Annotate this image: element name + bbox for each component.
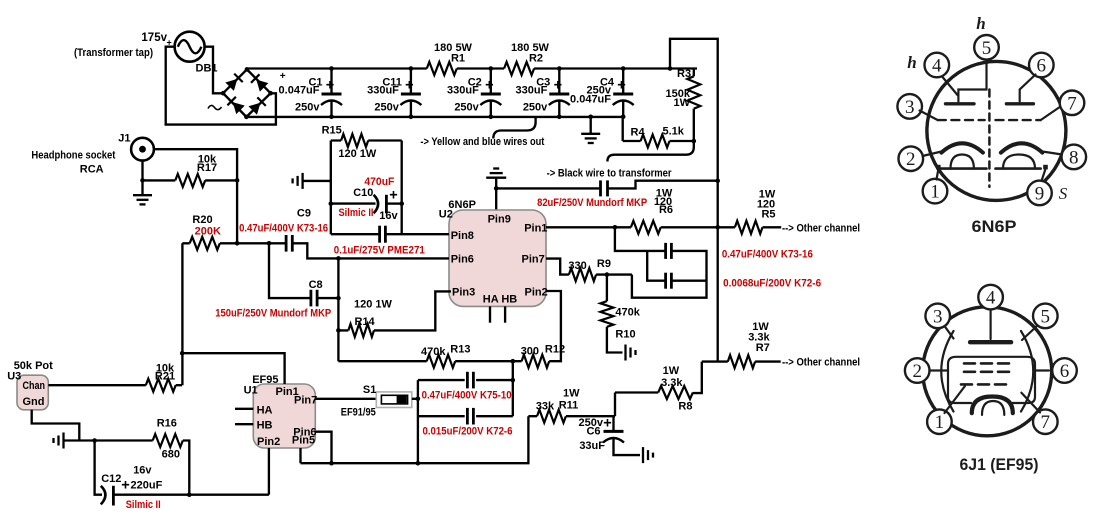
svg-text:330uF: 330uF — [516, 85, 548, 97]
node Pin6 bottom — [329, 461, 334, 466]
svg-text:RCA: RCA — [80, 164, 104, 176]
resistor R10 — [606, 275, 608, 302]
svg-text:J1: J1 — [118, 133, 130, 145]
wire S1 to caps node — [412, 398, 418, 400]
svg-text:Pin6: Pin6 — [451, 254, 474, 266]
svg-text:120 1W: 120 1W — [354, 299, 393, 311]
svg-text:16v: 16v — [133, 465, 152, 477]
node caps-bottom wire — [416, 461, 421, 466]
svg-text:U3: U3 — [7, 371, 21, 383]
tube socket diagram 6N6P — [897, 14, 1086, 205]
capacitor C1 — [279, 66, 342, 119]
svg-text:470uF: 470uF — [364, 176, 394, 188]
node bridge vertex — [245, 67, 250, 72]
wire ground to R16 — [64, 439, 153, 441]
node S1 connection — [416, 397, 421, 402]
wire top S1 cap — [418, 379, 513, 381]
wire R8 riser — [693, 362, 702, 394]
svg-text:+: + — [617, 78, 625, 94]
svg-text:220uF: 220uF — [131, 480, 163, 492]
node R9 junction — [605, 272, 610, 277]
capacitor C9 — [285, 235, 288, 252]
node bridge vertex — [221, 91, 226, 96]
svg-text:3: 3 — [933, 306, 943, 327]
resistor R8 — [658, 386, 693, 399]
wire C6 riser to R8 — [614, 393, 616, 417]
wire R15 box left rail — [330, 141, 332, 235]
svg-text:R9: R9 — [597, 258, 611, 270]
svg-text:4: 4 — [986, 288, 996, 309]
wire top-right loop to right trunk — [670, 39, 718, 362]
svg-text:U2: U2 — [439, 209, 453, 221]
svg-text:33uF: 33uF — [579, 440, 605, 452]
svg-text:Headphone socket: Headphone socket — [31, 150, 115, 162]
svg-text:6: 6 — [1037, 56, 1047, 77]
wire cap2 branch — [647, 251, 665, 281]
wire transformer right to bridge left — [205, 47, 224, 94]
svg-text:82uF/250V Mundorf MKP: 82uF/250V Mundorf MKP — [537, 197, 647, 209]
wire Pin7 U1 to S1 — [315, 398, 376, 400]
capacitor 0.015uF/200V K72-6 — [466, 408, 469, 425]
wire Pin1 to junction — [546, 226, 631, 228]
svg-text:250v: 250v — [523, 102, 548, 114]
wire R20-left long vertical — [181, 243, 183, 385]
svg-text:R13: R13 — [450, 344, 470, 356]
svg-text:U1: U1 — [244, 385, 258, 397]
svg-text:330: 330 — [568, 260, 586, 272]
svg-text:470k: 470k — [615, 307, 640, 319]
resistor R12 — [522, 355, 550, 368]
svg-text:680: 680 — [162, 449, 180, 461]
wire yellow-blue takeoff curl — [493, 117, 535, 139]
heater stub HA U1 — [235, 408, 253, 410]
node C9 wire branch to C8 — [267, 241, 272, 246]
node R21 to Pin1 branch — [180, 351, 185, 356]
wire top cap right — [632, 251, 707, 298]
svg-text:HB: HB — [257, 420, 273, 432]
wire B+ top rail — [247, 67, 697, 70]
svg-text:8: 8 — [1069, 147, 1079, 168]
svg-text:+: + — [603, 416, 611, 432]
svg-text:7: 7 — [1067, 93, 1077, 114]
svg-text:250v: 250v — [374, 102, 399, 114]
svg-text:R16: R16 — [157, 418, 177, 430]
resistor R11 — [537, 410, 566, 423]
resistor R6 — [631, 221, 661, 234]
svg-text:R10: R10 — [615, 329, 635, 341]
node C8-riser — [336, 296, 341, 301]
svg-text:(Transformer tap): (Transformer tap) — [74, 47, 153, 59]
svg-text:3.3k: 3.3k — [661, 377, 683, 389]
svg-text:Chan: Chan — [23, 380, 46, 392]
wire input node to C9 — [237, 242, 286, 244]
capacitor 82uF/250V Mundorf MKP — [599, 180, 602, 196]
wire Gnd route from U3 — [32, 410, 80, 441]
wire branch down to C8 — [269, 243, 311, 298]
wire C8 right to riser — [317, 297, 338, 299]
ground above Pin9 (inverted) — [495, 178, 497, 188]
svg-text:+: + — [121, 478, 129, 494]
svg-text:EF91/95: EF91/95 — [341, 406, 376, 418]
svg-text:2: 2 — [906, 149, 916, 170]
svg-text:+: + — [554, 78, 562, 94]
svg-text:175v: 175v — [141, 32, 167, 44]
resistor R13 — [427, 355, 456, 368]
svg-text:HA HB: HA HB — [483, 294, 517, 306]
wire Chan to R21 — [48, 384, 146, 386]
svg-text:1W: 1W — [674, 97, 691, 109]
svg-text:R15: R15 — [322, 125, 342, 137]
heater stub HA U2 — [489, 306, 491, 322]
switch S1 — [376, 392, 412, 408]
svg-text:S1: S1 — [363, 384, 376, 396]
svg-text:S: S — [1059, 184, 1068, 203]
svg-text:0.47uF/400V K75-10: 0.47uF/400V K75-10 — [422, 389, 512, 401]
connector J1 RCA — [131, 138, 154, 161]
svg-text:Silmic II: Silmic II — [126, 499, 161, 511]
svg-text:5: 5 — [1041, 306, 1051, 327]
svg-text:R2: R2 — [529, 53, 543, 65]
wire U1 Pin6 jog — [315, 432, 331, 464]
svg-text:4: 4 — [932, 56, 942, 77]
svg-text:C8: C8 — [309, 279, 323, 291]
resistor R1 — [427, 62, 457, 75]
resistor R2 — [504, 62, 534, 75]
svg-text:R7: R7 — [756, 342, 770, 354]
resistor R3 — [693, 69, 695, 77]
bridge rectifier DB1 — [223, 69, 271, 117]
svg-text:C10: C10 — [353, 187, 373, 199]
svg-text:250v: 250v — [295, 102, 320, 114]
svg-text:6N6P: 6N6P — [972, 217, 1017, 236]
resistor R17 — [175, 174, 205, 187]
ground at U3 (left-pointing) — [62, 433, 64, 449]
node R16-C12 — [187, 492, 192, 497]
svg-text:150uF/250V Mundorf MKP: 150uF/250V Mundorf MKP — [215, 308, 331, 320]
svg-text:C6: C6 — [586, 426, 600, 438]
svg-text:Pin2: Pin2 — [525, 287, 548, 299]
capacitor C11 — [367, 66, 421, 119]
svg-text:+: + — [280, 71, 286, 82]
wire bottom S1 cap — [418, 415, 513, 417]
svg-text:R5: R5 — [761, 209, 775, 221]
pot U3 body — [17, 375, 48, 410]
node rail corner — [668, 66, 673, 71]
resistor R20 — [190, 237, 220, 250]
resistor R7 — [728, 355, 755, 368]
wire R6-left down to caps — [615, 227, 666, 251]
svg-text:120 1W: 120 1W — [338, 148, 377, 160]
svg-text:1: 1 — [930, 182, 940, 203]
svg-text:+: + — [405, 78, 413, 94]
capacitor C6 33uF — [612, 416, 614, 430]
svg-text:0.47uF/400V K73-16: 0.47uF/400V K73-16 — [722, 249, 813, 261]
svg-text:+: + — [485, 78, 493, 94]
svg-text:Pin2: Pin2 — [257, 436, 280, 448]
heater stub HB U1 — [235, 423, 253, 425]
wire transformer left to bridge bottom return — [166, 47, 276, 125]
wire J1 to right vertical — [154, 149, 237, 243]
svg-text:6J1 (EF95): 6J1 (EF95) — [960, 455, 1039, 474]
svg-text:16v: 16v — [379, 210, 398, 222]
ground PSU — [590, 117, 592, 133]
svg-text:R3: R3 — [677, 68, 691, 80]
node right rail top cap — [511, 378, 516, 383]
svg-text:5.1k: 5.1k — [663, 126, 685, 138]
svg-text:Gnd: Gnd — [23, 396, 45, 408]
tube U2 6N6P body — [449, 210, 546, 306]
wire riser x=338.4 — [337, 258, 339, 361]
node bridge vertex — [268, 91, 273, 96]
svg-text:h: h — [907, 53, 916, 72]
svg-text:h: h — [976, 14, 985, 33]
svg-text:C9: C9 — [297, 208, 311, 220]
svg-text:Pin3: Pin3 — [452, 287, 475, 299]
svg-text:300: 300 — [521, 346, 539, 358]
node bridge vertex — [244, 115, 249, 120]
svg-text:200K: 200K — [195, 226, 221, 238]
svg-text:Pin9: Pin9 — [488, 214, 511, 226]
svg-text:Pin7: Pin7 — [294, 395, 317, 407]
wire bottom cap right — [671, 280, 706, 282]
ground at C6 (right-pointing) — [642, 447, 644, 463]
resistor R15 box — [331, 139, 402, 141]
heater stub HB U2 — [504, 306, 506, 322]
resistor R14 — [348, 324, 374, 337]
resistor R9 — [569, 268, 596, 281]
svg-text:R14: R14 — [355, 316, 376, 328]
svg-text:1W: 1W — [563, 388, 580, 400]
svg-text:HA: HA — [257, 404, 273, 416]
capacitor C8 — [309, 290, 312, 307]
svg-text:6: 6 — [1060, 361, 1070, 382]
svg-text:R6: R6 — [659, 204, 673, 216]
svg-text:0.47uF/400V K73-16: 0.47uF/400V K73-16 — [239, 223, 328, 235]
svg-text:Silmic II: Silmic II — [339, 207, 374, 219]
svg-text:R4: R4 — [631, 127, 646, 139]
capacitor C3 — [516, 66, 570, 119]
svg-text:C12: C12 — [101, 473, 121, 485]
capacitor 0.47uF/400V K75-10 — [466, 372, 469, 389]
resistor R16 — [153, 434, 183, 447]
svg-text:0.015uF/200V K72-6: 0.015uF/200V K72-6 — [423, 425, 513, 437]
wire DC- bottom rail — [246, 117, 622, 141]
wire caps left rail — [417, 380, 419, 463]
svg-text:1: 1 — [935, 412, 945, 433]
wire J1 bottom stub — [141, 161, 143, 181]
wire ground to left rail — [303, 180, 331, 182]
svg-text:R8: R8 — [678, 401, 692, 413]
capacitor 0.0068uF/200V K72-6 (parallel pair bottom) — [664, 273, 667, 289]
node trunk-82uF — [715, 178, 720, 183]
svg-text:0.047uF: 0.047uF — [279, 85, 320, 97]
resistor R4 — [641, 135, 670, 148]
svg-text:-> Yellow and blue wires out: -> Yellow and blue wires out — [420, 136, 544, 148]
wire Pin7 to R9 — [546, 259, 569, 275]
svg-text:0.047uF: 0.047uF — [570, 94, 611, 106]
wire trunk to 82uF cap — [608, 181, 718, 189]
wire bottom long wire to R11 — [301, 416, 529, 463]
svg-text:250v: 250v — [454, 102, 479, 114]
AC source (transformer tap) T1 — [175, 32, 205, 62]
AC squiggle near bridge — [208, 105, 222, 109]
resistor R21 — [146, 379, 176, 392]
wire R12 to Pin2 riser — [546, 291, 561, 361]
svg-text:1W: 1W — [663, 365, 680, 377]
svg-text:-> Black wire to transformer: -> Black wire to transformer — [547, 168, 673, 180]
svg-text:Pin1: Pin1 — [524, 223, 547, 235]
svg-text:Pin7: Pin7 — [522, 254, 545, 266]
wire to U1 Pin1 — [182, 353, 284, 384]
svg-text:470k: 470k — [421, 346, 446, 358]
wire R13 to R12 — [455, 360, 521, 362]
svg-text:3: 3 — [905, 97, 915, 118]
node R17 right — [235, 178, 240, 183]
node Pin9 junction — [494, 186, 499, 191]
svg-text:33k: 33k — [536, 401, 555, 413]
wire black wire takeoff curl — [607, 141, 693, 162]
capacitor C12 220uF — [101, 486, 106, 505]
wire C9 to Pin6 — [292, 243, 449, 258]
node Pin1-R6 — [613, 225, 618, 230]
ground left of R15 block — [301, 173, 303, 189]
svg-text:9: 9 — [1035, 183, 1045, 204]
node C9/C8/R14 riser top — [336, 256, 341, 261]
capacitor 0.1uF coupling to Pin8 — [331, 233, 449, 235]
svg-text:R11: R11 — [559, 400, 579, 412]
node R13-R12 junction — [511, 359, 516, 364]
ground at R10 (right-pointing) — [624, 345, 626, 361]
tube U1 EF95 body — [253, 384, 315, 448]
svg-text:R1: R1 — [451, 53, 465, 65]
svg-text:--> Other channel: --> Other channel — [782, 223, 860, 235]
ground at J1 — [141, 180, 143, 194]
svg-text:2: 2 — [912, 361, 922, 382]
wire 82uF to Pin9 junction — [496, 187, 600, 189]
node R14-riser — [336, 328, 341, 333]
svg-text:DB1: DB1 — [196, 63, 218, 75]
svg-text:0.0068uF/200V K72-6: 0.0068uF/200V K72-6 — [723, 278, 821, 290]
svg-text:5: 5 — [982, 38, 992, 59]
node R3-R4 — [692, 139, 697, 144]
wire R10 to ground — [607, 327, 623, 353]
node R20 right / input node — [235, 241, 240, 246]
svg-text:0.1uF/275V PME271: 0.1uF/275V PME271 — [334, 244, 425, 256]
capacitor C2 — [447, 66, 501, 119]
svg-text:330uF: 330uF — [367, 85, 399, 97]
wire riser bottom to R13 — [338, 360, 426, 362]
wire R15 box right rail — [401, 141, 403, 235]
svg-text:R20: R20 — [192, 214, 212, 226]
node C12 branch — [92, 438, 97, 443]
svg-text:--> Other channel: --> Other channel — [782, 357, 860, 369]
svg-text:Pin8: Pin8 — [451, 230, 474, 242]
capacitor C10 470uF — [331, 202, 376, 204]
capacitor C4 — [570, 66, 634, 119]
node J1-R17 — [140, 178, 145, 183]
resistor R5 — [735, 221, 763, 234]
wire C12 left riser — [95, 441, 102, 495]
wire U1 Pin5 stub — [299, 448, 301, 463]
svg-text:+: + — [389, 188, 397, 204]
capacitor 0.47uF/400V K73-16 (parallel pair top) — [664, 243, 667, 259]
wire Pin9 stub — [495, 188, 497, 211]
svg-text:R21: R21 — [155, 371, 175, 383]
svg-text:Pin5: Pin5 — [292, 435, 315, 447]
svg-text:R17: R17 — [197, 162, 217, 174]
svg-text:7: 7 — [1041, 412, 1051, 433]
node trunk-R6 — [715, 225, 720, 230]
wire caps right rail to R13 junction — [512, 361, 514, 416]
svg-text:+: + — [326, 78, 334, 94]
svg-text:330uF: 330uF — [447, 85, 479, 97]
wire C12 to U1 Pin2 — [268, 448, 270, 495]
tube socket diagram 6J1 (EF95) — [905, 285, 1077, 436]
